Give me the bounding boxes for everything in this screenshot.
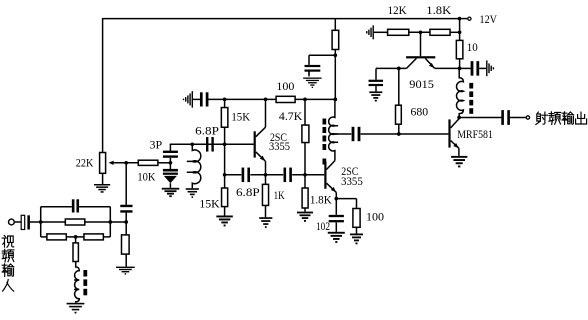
wire 1.8K to 12V column — [450, 31, 460, 33]
wire Q1 collector up — [265, 99, 267, 127]
svg-text:1.8K: 1.8K — [426, 3, 451, 17]
wire resistor to ground — [125, 254, 127, 267]
wire down to 100 — [356, 199, 358, 209]
resistor 4.7K — [302, 125, 309, 143]
wire 9015 collector to node — [399, 67, 407, 69]
svg-text:22K: 22K — [76, 156, 94, 170]
wire Q1 emitter diagonal — [256, 152, 265, 161]
svg-text:3P: 3P — [150, 138, 163, 152]
resistor 1K — [262, 184, 268, 205]
wire 3P to varactor — [169, 158, 171, 169]
wire 12K to 1.8K — [409, 31, 430, 33]
resistor 10K — [138, 160, 158, 165]
wire buffer line c — [292, 174, 324, 176]
transistor Q2 2SC3355 base bar — [324, 162, 326, 189]
node 9015 base bias — [419, 30, 423, 34]
wire 9015 collector diagonal — [407, 58, 417, 68]
node 9015 collector — [397, 67, 401, 71]
wire bridge bottom — [41, 236, 47, 238]
svg-text:6.8P: 6.8P — [195, 123, 219, 137]
svg-text:15K: 15K — [231, 110, 250, 124]
ground (T3) — [67, 303, 85, 305]
wire MRF collector diagonal — [451, 119, 460, 128]
wire cap to output terminal — [510, 117, 526, 119]
node Q2 emitter — [334, 197, 338, 201]
resistor 100 (collector) — [276, 96, 295, 102]
svg-text:10K: 10K — [137, 170, 155, 184]
wire top rail to feed resistor — [334, 19, 336, 31]
svg-text:1.8K: 1.8K — [310, 193, 332, 207]
transformer T2 winding — [457, 68, 464, 117]
wire 1K to ground — [265, 206, 267, 218]
wire bridge middle — [41, 221, 66, 223]
wire to 1K — [265, 175, 267, 185]
wire bridge to video column — [110, 221, 126, 223]
resistor 1.8K (bias) — [430, 29, 450, 35]
terminal RF output — [526, 116, 529, 119]
wire MRF collector to node — [458, 118, 460, 119]
ground (sideways, bias line left) — [373, 25, 374, 39]
wire 9015 emitter to node — [435, 67, 460, 69]
node bridge bottom center — [74, 235, 78, 239]
wire pot to ground — [102, 173, 104, 184]
wire bridge top — [41, 206, 72, 208]
ground (15K bottom) — [216, 216, 233, 218]
wire MRF581 base line — [361, 133, 449, 135]
arrowhead Q2 emitter — [331, 187, 336, 192]
wire 12V top rail — [103, 18, 460, 20]
resistor (bridge bottom right) — [84, 234, 103, 240]
capacitor 6.8P (feedback 2) — [242, 168, 245, 183]
svg-text:MRF581: MRF581 — [457, 127, 493, 141]
capacitor 6.8P (feedback 1) — [206, 137, 208, 152]
resistor 12K — [388, 29, 409, 35]
node 12V column junction — [458, 30, 462, 34]
wire MRF emitter down — [458, 148, 460, 156]
wire cap to ground — [308, 71, 310, 76]
transistor Q1 2SC3355 base bar — [254, 131, 256, 157]
wire 12V column upper — [459, 19, 461, 41]
wire feed resistor to osc supply node — [334, 50, 336, 100]
wire 100 to ground — [356, 227, 358, 233]
wire 1.8K to ground — [304, 208, 306, 212]
capacitor (coupling to MRF581) — [352, 127, 355, 141]
ground (varactor) — [162, 188, 180, 190]
wire to 4.7K — [304, 99, 306, 125]
ground (osc bypass) — [303, 78, 321, 79]
wire to 1.8K (2) — [304, 175, 306, 188]
wire emitter node to bypass cap — [460, 67, 471, 69]
wire 15K to base line down to buffer line — [224, 127, 226, 175]
resistor (bridge middle) — [65, 219, 85, 225]
potentiometer 22K — [100, 153, 106, 174]
node video line end — [124, 220, 128, 224]
svg-text:4.7K: 4.7K — [279, 109, 303, 123]
svg-text:6.8P: 6.8P — [236, 185, 260, 199]
ground (9015 bypass) — [369, 91, 382, 93]
node bridge left — [39, 220, 43, 224]
transformer T2 core (dashed) — [469, 83, 473, 89]
wire to 15K — [224, 99, 226, 107]
label char 输 (in) — [2, 264, 14, 277]
wire collector node to bypass cap — [376, 67, 399, 69]
wire varactor to ground — [169, 183, 171, 188]
wire Q1 collector diagonal — [256, 127, 266, 137]
varactor diode — [163, 169, 178, 172]
ground (22K pot) — [94, 184, 110, 186]
wire cap to video node — [125, 213, 127, 235]
wire 4.7K to Q2 base line — [304, 143, 306, 175]
svg-text:100: 100 — [366, 210, 384, 224]
ground (102) — [328, 232, 345, 234]
svg-text:12V: 12V — [480, 12, 498, 26]
wire 10 resistor to emitter node — [459, 59, 461, 69]
capacitor (video coupling to varactor) — [120, 205, 132, 207]
label char 频 (in) — [2, 249, 14, 262]
node 15K top — [223, 98, 227, 102]
wire left drop to 22K pot — [102, 18, 104, 153]
label char 入 — [3, 280, 14, 292]
wire 15K bottom to ground — [224, 207, 226, 216]
capacitor (osc supply decoupling) — [200, 92, 203, 106]
wire wiper line — [113, 162, 138, 164]
resistor 15K (osc base) — [221, 108, 228, 128]
capacitor (emitter bypass) — [471, 61, 474, 76]
capacitor 9015 collector bypass — [369, 80, 384, 82]
wire Q2 emitter down — [335, 192, 337, 198]
wire gnd to cap — [193, 98, 200, 100]
wire collector node down — [398, 68, 400, 105]
transistor Q3 9015 base bar — [406, 56, 435, 58]
resistor 680 — [396, 105, 402, 124]
svg-text:680: 680 — [411, 105, 429, 119]
wire wiper node down — [125, 163, 127, 205]
capacitor (coupling to Q2) — [284, 168, 287, 183]
wire buffer line b — [250, 174, 283, 176]
node Q1 collector — [264, 98, 268, 102]
terminal video input — [9, 219, 15, 225]
wire cap to ground — [479, 67, 486, 69]
ground (tank coil) — [186, 188, 199, 190]
wire down to cap — [375, 68, 377, 79]
wire to bypass cap — [309, 54, 335, 56]
wire 102 to ground — [335, 222, 337, 232]
label char 输 (out) — [562, 112, 574, 125]
capacitor supply bypass (osc) — [305, 65, 321, 67]
resistor (supply feed, unlabeled) — [332, 30, 339, 49]
wire cap to ground — [375, 86, 377, 91]
resistor 15K (bottom) — [222, 188, 228, 207]
node varactor/10K — [169, 161, 173, 165]
wire to 12V terminal — [462, 18, 468, 20]
svg-text:3355: 3355 — [269, 139, 290, 153]
wire output line — [459, 117, 502, 119]
label char 射 — [536, 112, 548, 125]
node 680 / MRF base — [397, 132, 401, 136]
resistor (video load) — [122, 235, 130, 254]
svg-text:102: 102 — [316, 219, 330, 233]
node tank coil top — [190, 142, 194, 146]
svg-text:3355: 3355 — [341, 174, 363, 188]
arrowhead Q1 emitter — [260, 156, 265, 161]
wire MRF emitter diagonal — [451, 141, 459, 149]
node Q1 emitter / 1K — [264, 173, 268, 177]
node MRF collector / T2 — [457, 116, 461, 120]
node 12V rail junction — [458, 17, 462, 21]
node feed/bypass — [333, 53, 337, 57]
node 15K bottom top — [223, 173, 227, 177]
label char 频 (out) — [549, 112, 561, 125]
terminal 12V — [468, 17, 471, 20]
resistor 10 — [456, 40, 463, 58]
ground (sideways, osc line left) — [192, 91, 193, 108]
capacitor 3P — [169, 144, 171, 151]
svg-text:1K: 1K — [274, 188, 285, 202]
wire bias line — [374, 31, 388, 33]
capacitor (output coupling) — [501, 110, 504, 125]
node 4.7K top — [303, 98, 307, 102]
label char 出 — [576, 112, 587, 124]
wire osc supply line — [208, 98, 335, 100]
ground (1.8K) — [297, 212, 313, 214]
wire emitter node to 102 — [335, 199, 337, 215]
capacitor 102 — [329, 215, 344, 217]
svg-text:100: 100 — [276, 79, 294, 93]
transformer T1 core (dashed) — [323, 119, 327, 125]
wire 680 to MRF base line — [398, 124, 400, 134]
wire Q2 emitter diagonal — [327, 183, 337, 192]
inductor tank coil — [187, 144, 201, 188]
transformer T3 core (dashed) — [83, 270, 87, 277]
resistor (bridge bottom left) — [47, 234, 66, 240]
arrowhead pot wiper — [109, 161, 114, 165]
ground (MRF emitter) — [451, 156, 467, 158]
ground (sideways right) — [486, 60, 487, 76]
svg-text:15K: 15K — [199, 196, 220, 210]
wire to 15K bottom — [224, 175, 226, 188]
wire down to cap — [308, 55, 310, 65]
node wiper/video — [124, 161, 128, 165]
wire 9015 emitter diagonal — [425, 58, 434, 68]
ground (video load) — [116, 267, 135, 268]
wire bridge left vertical — [40, 207, 42, 237]
wire 10K to varactor node — [158, 162, 171, 164]
capacitor (bridge top) — [72, 199, 75, 212]
label char 视 — [2, 235, 14, 247]
wire emitter node right — [336, 198, 356, 200]
node 4.7K / 1.8K bias — [303, 173, 307, 177]
node osc supply — [333, 98, 337, 102]
wire Q1 base line — [170, 143, 254, 145]
arrowhead 9015 emitter — [429, 63, 434, 68]
transformer T3 winding — [74, 262, 79, 303]
node bridge right — [108, 220, 112, 224]
transformer T1 winding — [329, 99, 338, 160]
svg-text:12K: 12K — [388, 3, 407, 17]
wire buffer line a — [225, 174, 242, 176]
wire bridge right vertical — [109, 207, 111, 237]
node emitter / 10R / choke — [458, 67, 462, 71]
ground (1K) — [259, 217, 272, 219]
ground (100 emitter) — [350, 234, 363, 236]
wire Q1 emitter down — [265, 161, 267, 175]
arrowhead MRF emitter — [453, 143, 458, 148]
resistor (peaking) — [73, 243, 78, 262]
svg-text:9015: 9015 — [409, 77, 434, 91]
node Q1 base line — [223, 142, 227, 146]
resistor 1.8K (Q2 bias) — [302, 188, 308, 208]
resistor 100 (emitter) — [353, 209, 360, 228]
svg-text:10: 10 — [467, 40, 478, 54]
wire 9015 base lead — [420, 32, 422, 56]
wire terminal to input cap — [15, 221, 21, 223]
wire bridge center down — [75, 237, 77, 243]
wire Q2 collector diagonal — [327, 161, 335, 170]
wire T1 tap to coupling cap — [335, 133, 351, 135]
capacitor (input, polarized) — [21, 215, 25, 229]
wire cap to bridge — [30, 221, 41, 223]
transistor Q4 MRF581 base bar — [448, 119, 450, 147]
